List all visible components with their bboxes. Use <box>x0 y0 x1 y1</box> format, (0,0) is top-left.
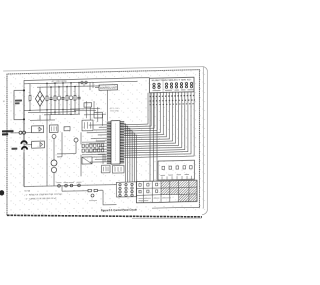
wire P2 drop <box>84 82 93 90</box>
node dot C4 <box>78 82 80 84</box>
TB1 cell marks <box>139 183 158 193</box>
transistor Q1 <box>51 160 57 166</box>
relay K1 <box>102 165 111 173</box>
wire number labels row 2 <box>150 100 196 101</box>
svg-text:NOTE: NOTE <box>25 190 31 192</box>
wire mid rail A <box>24 109 80 110</box>
relay K5 <box>94 112 103 118</box>
wire bank feeds <box>81 132 105 177</box>
connector P1 <box>19 131 26 134</box>
label switch names <box>153 89 194 92</box>
lamp L2 <box>57 87 61 115</box>
TB1 row3 text <box>139 198 172 201</box>
wire rectifier feed <box>39 87 41 112</box>
wire AC bus L <box>24 81 138 84</box>
U1 right pins <box>120 122 124 163</box>
node rail dots <box>29 109 71 116</box>
U1 left pins <box>107 122 111 163</box>
bus component E2 <box>65 184 68 187</box>
resistor R1 <box>29 84 31 96</box>
lamp L3 <box>69 83 73 114</box>
capacitor C3 <box>61 83 64 114</box>
TB1 hatch <box>161 180 197 202</box>
wire mid rail C <box>44 113 80 116</box>
breaker CB1 <box>21 141 27 150</box>
switch S2-6 <box>180 83 182 88</box>
bridge rectifier D1 <box>35 91 44 106</box>
switch S2-1 <box>153 83 155 88</box>
wire AC bus N <box>37 86 100 87</box>
capacitor C4 <box>77 83 80 114</box>
filter FL1 <box>32 126 44 133</box>
border frame bottom band <box>7 215 202 217</box>
switch S2-3 <box>165 83 167 88</box>
display module DS1 <box>158 160 195 180</box>
relay K2 <box>50 125 59 133</box>
label S1 <box>15 100 22 105</box>
bus component E4 <box>78 184 81 187</box>
label POWER SW <box>2 130 14 135</box>
node dot R3 <box>46 83 48 85</box>
DS1 segments <box>162 166 192 170</box>
microcontroller U1 <box>111 121 120 165</box>
wire lower rail <box>30 115 55 121</box>
wire ground bus <box>24 185 117 187</box>
transistor Q2 <box>51 167 56 172</box>
wire S3 top rail <box>82 141 105 144</box>
DS1 pin stubs <box>161 175 192 180</box>
switch bank S3 <box>82 144 104 152</box>
node dot R5 <box>66 86 68 88</box>
wire mid rail B <box>28 112 76 113</box>
relay K6 <box>82 157 92 164</box>
pilot lamp L6 <box>74 138 78 142</box>
switch S2-2 <box>158 83 160 88</box>
U1 interior label <box>115 124 117 162</box>
node junction bottom <box>23 118 25 120</box>
node junction top <box>23 89 25 91</box>
page bottom edge <box>132 217 202 219</box>
wire number labels row 3 <box>150 104 196 105</box>
node dot C2 <box>50 86 52 88</box>
page edge <box>3 66 207 219</box>
terminal X1 <box>64 127 70 131</box>
wire left column <box>23 119 25 186</box>
wire harness W1 elbows to U1 <box>124 92 194 158</box>
controller label box A1 <box>99 85 118 91</box>
wire Q leads <box>47 114 76 186</box>
S2 group divider <box>162 78 164 93</box>
node dot L3 <box>70 82 72 84</box>
wire harness W1 straight drops <box>150 93 157 182</box>
resistor R10 <box>88 189 91 191</box>
power switch S1 <box>14 90 24 119</box>
node dot L2 <box>58 86 60 88</box>
lamp L5 <box>52 134 56 138</box>
wire harness W2 U1 left <box>87 125 107 162</box>
switch S2-5 <box>175 83 177 88</box>
label LINE <box>12 148 18 150</box>
opto U2 <box>82 120 93 131</box>
switch S2-7 <box>185 83 187 88</box>
wire A1 left <box>95 87 99 89</box>
scan smudge <box>0 190 4 195</box>
wire A1 to U1 <box>107 90 109 121</box>
wire S1 feed <box>11 131 32 133</box>
bus component E1 <box>58 184 61 187</box>
label C9 <box>89 199 97 201</box>
resistor R4 <box>54 83 56 114</box>
svg-text:CONTROL UNIT: CONTROL UNIT <box>100 86 117 90</box>
resistor R6 <box>74 86 76 114</box>
wire aux tie <box>61 186 63 192</box>
switch S2-4 <box>170 83 172 88</box>
TB1 row lines <box>137 187 198 195</box>
switch S2-8 <box>190 82 192 87</box>
connector J3 <box>117 182 137 197</box>
wire S3 bottom rail <box>82 153 105 156</box>
wire cluster drops <box>86 101 102 126</box>
wire FL2 feed <box>24 144 32 146</box>
relay K4 <box>84 103 92 108</box>
wire aux bus <box>62 190 117 206</box>
resistor R3 <box>46 83 48 114</box>
resistor R11 <box>94 189 97 191</box>
node dot R6 <box>74 86 76 88</box>
TB1 column lines <box>143 180 189 202</box>
svg-text:Figure 8-5. Control Panel Circ: Figure 8-5. Control Panel Circuit <box>101 207 137 212</box>
J3 pins <box>119 183 133 196</box>
wire cluster rails <box>70 108 106 115</box>
svg-text:TP2 GND: TP2 GND <box>110 111 120 113</box>
wire harness W3 U1 to J3 <box>124 124 136 183</box>
filter FL2 <box>32 141 45 148</box>
border frame <box>7 70 200 216</box>
bus component E3 <box>70 184 73 187</box>
connector P2 <box>81 81 87 84</box>
paper speckle <box>4 67 207 219</box>
svg-text:AC 120V 60Hz: AC 120V 60Hz <box>52 80 68 83</box>
inner margin line bottom right <box>152 206 199 209</box>
resistor R5 <box>66 87 68 115</box>
capacitor C9 <box>91 194 94 197</box>
capacitor C2 <box>49 87 52 115</box>
wire number labels row 1 <box>150 95 196 96</box>
control unit outline <box>24 78 150 187</box>
node dot R4 <box>54 82 56 84</box>
function switch table S2 <box>150 77 195 93</box>
driver Q3 <box>113 165 125 173</box>
node dot C3 <box>62 82 64 84</box>
terminal table TB1 <box>137 180 198 203</box>
